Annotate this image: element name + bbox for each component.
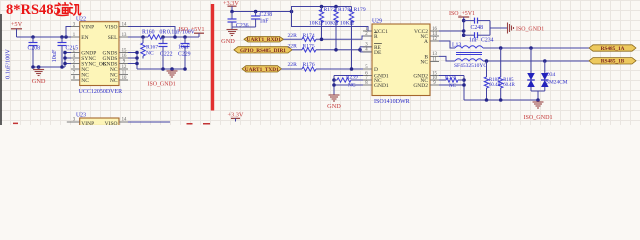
svg-text:C229: C229 bbox=[178, 52, 191, 58]
resistor R160 bbox=[148, 35, 162, 39]
svg-text:C208: C208 bbox=[28, 46, 41, 52]
capacitor C234 bbox=[464, 34, 475, 36]
svg-text:+5V: +5V bbox=[11, 21, 23, 28]
wire txd bbox=[282, 68, 303, 70]
svg-text:R178: R178 bbox=[338, 7, 350, 13]
svg-text:SEL: SEL bbox=[108, 35, 118, 41]
junction VINP branch bbox=[64, 35, 68, 39]
U29 pins left bbox=[363, 30, 372, 32]
resistor R176 22R bbox=[302, 67, 316, 71]
wire GNDP bus bbox=[64, 53, 66, 68]
wire +5V rail bbox=[17, 36, 72, 38]
svg-text:1nF: 1nF bbox=[469, 38, 479, 44]
wire tvs join bbox=[531, 90, 545, 92]
wire pullup rail bbox=[292, 7, 352, 12]
wire iso ground rail bbox=[137, 68, 185, 70]
svg-text:11: 11 bbox=[122, 70, 127, 75]
svg-text:R174: R174 bbox=[303, 33, 315, 39]
wire B to choke bbox=[439, 56, 455, 61]
svg-text:SF4532510YC: SF4532510YC bbox=[454, 63, 487, 69]
wire SEL to R160 bbox=[128, 36, 148, 38]
TVS diode D34 b bbox=[543, 59, 547, 63]
svg-text:EN: EN bbox=[81, 35, 88, 41]
svg-text:0R: 0R bbox=[160, 30, 167, 36]
svg-text:12: 12 bbox=[122, 65, 127, 70]
svg-text:A: A bbox=[424, 39, 428, 45]
svg-text:10KΩ: 10KΩ bbox=[325, 21, 339, 27]
wire rxd bbox=[284, 38, 303, 40]
wire VINP branch bbox=[66, 27, 71, 38]
port UART1_RXD1 bbox=[244, 37, 284, 43]
svg-text:R179: R179 bbox=[354, 7, 366, 13]
wire VISO to node bbox=[128, 27, 175, 38]
wire vcc1 feed bbox=[292, 12, 373, 32]
svg-text:VISO: VISO bbox=[105, 25, 118, 31]
svg-text:GND: GND bbox=[221, 38, 235, 45]
wire dir to RE DE bbox=[316, 49, 360, 51]
svg-text:UART1_TXD1: UART1_TXD1 bbox=[245, 67, 279, 73]
wire U23 viso bbox=[128, 121, 170, 123]
grid background bbox=[0, 0, 640, 125]
svg-text:C234: C234 bbox=[481, 38, 494, 44]
svg-text:RS485_1A: RS485_1A bbox=[601, 46, 625, 52]
resistor R239 NC bbox=[351, 79, 363, 81]
capacitor C229 bbox=[184, 37, 186, 44]
svg-text:SM24CM: SM24CM bbox=[546, 80, 568, 86]
junction C215 top bbox=[60, 35, 64, 39]
wire txd to D bbox=[316, 68, 363, 70]
svg-text:VISO: VISO bbox=[105, 121, 118, 125]
ground GND mid bbox=[231, 27, 233, 30]
svg-text:UART1_RXD1: UART1_RXD1 bbox=[247, 37, 282, 43]
wire node to power bbox=[162, 36, 199, 38]
capacitor C215 bbox=[61, 37, 63, 43]
svg-text:ISO1410DWR: ISO1410DWR bbox=[374, 99, 410, 105]
svg-text:NC: NC bbox=[110, 78, 118, 84]
svg-text:ISO_+5V1: ISO_+5V1 bbox=[179, 27, 205, 33]
svg-text:R176: R176 bbox=[303, 62, 315, 68]
svg-text:GND: GND bbox=[32, 78, 46, 85]
sheet border left edge bbox=[0, 14, 2, 125]
resistor R184 60.4R bbox=[485, 59, 489, 63]
svg-text:C238: C238 bbox=[260, 12, 273, 18]
U29 pins right bbox=[430, 30, 439, 32]
svg-text:GPIO_RS485_DIR1: GPIO_RS485_DIR1 bbox=[240, 48, 286, 54]
ground ISO_GND1 left bbox=[170, 67, 174, 71]
svg-text:10KΩ: 10KΩ bbox=[340, 21, 354, 27]
svg-text:ISO_GND1: ISO_GND1 bbox=[523, 115, 552, 121]
U29 pin R RE overbars bbox=[374, 32, 378, 34]
U22 pins left bbox=[71, 26, 80, 28]
wire gnd2 bus bbox=[439, 75, 464, 77]
wire U29 gnd1 bus bbox=[334, 75, 363, 77]
svg-text:+3.3V: +3.3V bbox=[228, 112, 244, 119]
svg-text:D34: D34 bbox=[546, 72, 556, 78]
svg-text:GND: GND bbox=[327, 103, 341, 110]
svg-text:GND2: GND2 bbox=[413, 83, 428, 89]
wire dir bbox=[292, 49, 302, 51]
svg-text:11: 11 bbox=[432, 57, 437, 62]
svg-text:60.4R: 60.4R bbox=[503, 83, 515, 88]
wire ground rail bbox=[33, 66, 65, 68]
power marks bottom bbox=[13, 123, 210, 125]
wire B line bbox=[483, 60, 589, 62]
svg-text:GND1: GND1 bbox=[374, 83, 389, 89]
svg-text:12: 12 bbox=[432, 37, 437, 42]
svg-text:10: 10 bbox=[122, 76, 127, 81]
port UART1_TXD1 bbox=[242, 66, 282, 72]
svg-text:NC: NC bbox=[449, 84, 457, 89]
wire A to choke bbox=[439, 41, 455, 48]
svg-text:VINP: VINP bbox=[81, 121, 94, 125]
svg-text:22R: 22R bbox=[288, 43, 298, 49]
svg-text:NC: NC bbox=[348, 83, 356, 89]
port RS485_1A bbox=[589, 45, 636, 51]
resistor R174 22R bbox=[302, 37, 316, 41]
divider red line bbox=[211, 4, 214, 111]
ground GND bbox=[37, 65, 41, 69]
svg-text:NC: NC bbox=[146, 51, 154, 57]
resistor R179 10K bbox=[351, 7, 353, 12]
resistor R177 10K bbox=[321, 7, 323, 12]
capacitor C222 bbox=[162, 37, 164, 44]
wire A line bbox=[483, 47, 589, 49]
wire vcc2 bbox=[439, 30, 464, 32]
svg-text:UCC12050DVER: UCC12050DVER bbox=[79, 89, 123, 95]
svg-text:ISO_GND1: ISO_GND1 bbox=[516, 26, 544, 32]
svg-text:R378: R378 bbox=[445, 76, 456, 81]
svg-text:14: 14 bbox=[122, 118, 127, 123]
svg-text:NC: NC bbox=[81, 78, 89, 84]
resistor R185 60.4R bbox=[499, 46, 503, 50]
wire GNDS bus bbox=[136, 53, 138, 70]
svg-text:C236: C236 bbox=[236, 23, 249, 29]
U23 pins partial bbox=[67, 121, 80, 123]
svg-text:10uF: 10uF bbox=[51, 49, 58, 62]
svg-text:L13: L13 bbox=[452, 43, 461, 49]
capacitor C236 bbox=[231, 12, 233, 20]
svg-text:RS485_1B: RS485_1B bbox=[601, 59, 625, 65]
resistor R167 NC bbox=[141, 35, 145, 39]
resistor R178 10K bbox=[335, 7, 337, 12]
capacitor C208 bbox=[32, 37, 34, 43]
junction C208 top bbox=[31, 35, 35, 39]
wire caps join bbox=[489, 21, 491, 36]
resistor R175 22R bbox=[302, 48, 316, 52]
svg-text:10uF: 10uF bbox=[178, 45, 191, 51]
U22 pins right bbox=[119, 26, 128, 28]
svg-text:DE: DE bbox=[374, 50, 382, 56]
svg-text:NC: NC bbox=[420, 60, 428, 66]
svg-text:ISO_GND1: ISO_GND1 bbox=[148, 82, 176, 88]
svg-text:ISO_+5V1: ISO_+5V1 bbox=[449, 11, 475, 17]
svg-text:R160: R160 bbox=[142, 30, 155, 36]
svg-text:0.1uF/100V: 0.1uF/100V bbox=[5, 49, 12, 79]
svg-text:10KΩ: 10KΩ bbox=[309, 21, 323, 27]
svg-text:22R: 22R bbox=[288, 33, 298, 39]
port GPIO_RS485_DIR1 bbox=[234, 47, 292, 53]
capacitor C248 bbox=[464, 20, 475, 22]
svg-text:C222: C222 bbox=[160, 52, 173, 58]
svg-text:22R: 22R bbox=[288, 62, 298, 68]
svg-text:13: 13 bbox=[122, 33, 127, 38]
resistor R378 NC bbox=[439, 79, 446, 81]
wire cap ground rail bbox=[232, 26, 256, 28]
svg-text:R175: R175 bbox=[303, 43, 315, 49]
svg-text:R: R bbox=[374, 34, 378, 40]
svg-text:14: 14 bbox=[122, 22, 127, 27]
svg-text:R239: R239 bbox=[346, 75, 358, 81]
svg-text:VINP: VINP bbox=[81, 25, 94, 31]
svg-text:16: 16 bbox=[122, 54, 127, 59]
TVS diode D34 a bbox=[529, 46, 533, 50]
ground ISO_GND1 right bbox=[507, 23, 509, 34]
port RS485_1B bbox=[589, 58, 636, 64]
svg-text:C248: C248 bbox=[471, 25, 484, 31]
wire 3v3 rail bbox=[232, 11, 292, 13]
ground GND mid2 bbox=[329, 94, 340, 96]
svg-text:15: 15 bbox=[122, 48, 127, 53]
wire rxd to U29 bbox=[316, 36, 372, 39]
capacitor C238 bbox=[255, 12, 257, 17]
svg-text:D: D bbox=[374, 67, 378, 73]
ground ISO_GND1 bottom bbox=[537, 100, 539, 102]
svg-text:8*RS485: 8*RS485 bbox=[6, 2, 61, 18]
svg-text:1nF: 1nF bbox=[260, 18, 270, 24]
